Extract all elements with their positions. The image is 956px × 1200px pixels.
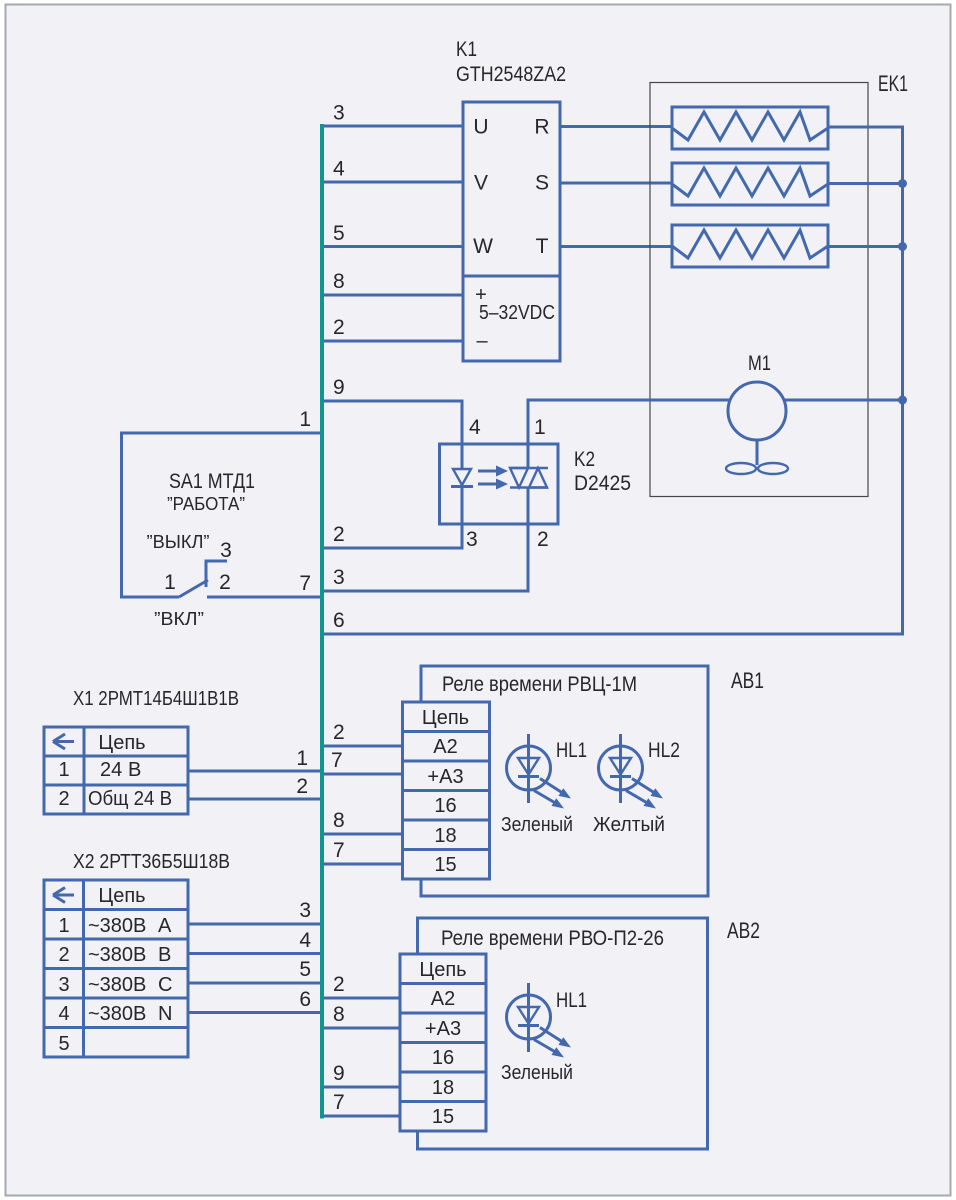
junction dot bbox=[898, 242, 907, 251]
svg-text:2: 2 bbox=[58, 944, 69, 966]
switch contact labels bbox=[164, 539, 232, 594]
wire 9 : bus to K2 pin4 bbox=[320, 401, 462, 444]
svg-text:1: 1 bbox=[58, 915, 69, 937]
K1 label bbox=[456, 38, 566, 86]
svg-text:АВ1: АВ1 bbox=[731, 668, 764, 693]
switch SA1 box outline bbox=[122, 433, 323, 597]
heater element 1 bbox=[672, 107, 828, 149]
svg-text:3: 3 bbox=[333, 566, 345, 589]
svg-text:2: 2 bbox=[333, 973, 345, 996]
svg-text:+А3: +А3 bbox=[427, 766, 463, 788]
svg-text:8: 8 bbox=[333, 1003, 345, 1026]
junction dot bbox=[898, 179, 907, 188]
wire 7 : bus to AV1.15 bbox=[320, 863, 403, 866]
AV1 terminal table bbox=[403, 702, 490, 879]
wire 3 : X2.1 to bus bbox=[188, 923, 322, 926]
svg-text:U: U bbox=[473, 116, 488, 139]
svg-text:1: 1 bbox=[534, 416, 546, 439]
svg-text:HL1: HL1 bbox=[556, 739, 587, 762]
svg-text:2: 2 bbox=[219, 571, 231, 594]
wire T : K1.T to heater EK1-3 bbox=[560, 245, 672, 248]
EK1 enclosure box bbox=[650, 83, 868, 497]
svg-text:Зеленый: Зеленый bbox=[501, 814, 573, 836]
svg-text:3: 3 bbox=[333, 102, 345, 125]
wire 2 : bus to AV1.A2 bbox=[320, 745, 403, 748]
wire 9 : bus to AV2.18 bbox=[320, 1086, 400, 1089]
wire 2 : bus to K2 pin3 bbox=[320, 524, 462, 548]
LED HL1 of AV1 bbox=[507, 734, 572, 809]
wire 6 : bus to right bus bbox=[320, 633, 904, 636]
svg-text:X2 2РТТ36Б5Ш18В: X2 2РТТ36Б5Ш18В bbox=[73, 851, 230, 873]
wire 8 : bus to AV1.18 bbox=[320, 833, 403, 836]
LED HL1 of AV2 bbox=[507, 983, 572, 1058]
wire 7 : bus to AV2.15 bbox=[320, 1115, 400, 1118]
X1 header arrow bbox=[53, 734, 74, 749]
wire heater2 to right bus bbox=[828, 182, 903, 185]
svg-text:Цепь: Цепь bbox=[422, 707, 469, 729]
svg-text:~380В: ~380В bbox=[88, 1003, 146, 1025]
svg-text:1: 1 bbox=[299, 408, 311, 431]
svg-text:9: 9 bbox=[333, 1062, 345, 1085]
svg-text:~380В: ~380В bbox=[88, 915, 146, 937]
svg-text:Желтый: Желтый bbox=[593, 814, 665, 836]
svg-text:16: 16 bbox=[432, 1047, 454, 1069]
wire 4 : bus to K1.V bbox=[320, 181, 463, 184]
svg-text:18: 18 bbox=[434, 825, 456, 847]
svg-text:5: 5 bbox=[58, 1033, 69, 1055]
svg-text:V: V bbox=[474, 172, 488, 195]
svg-text:2: 2 bbox=[58, 788, 69, 810]
wire 4 : X2.2 to bus bbox=[188, 952, 322, 955]
svg-text:X1 2РМТ14Б4Ш1В1В: X1 2РМТ14Б4Ш1В1В bbox=[73, 688, 239, 710]
K2 triac bbox=[510, 444, 548, 524]
wire heater3 to right bus bbox=[828, 245, 903, 248]
svg-text:6: 6 bbox=[333, 609, 345, 632]
svg-text:HL2: HL2 bbox=[648, 739, 680, 762]
K2 pin 4 lead and LED bbox=[451, 444, 473, 524]
svg-text:”РАБОТА”: ”РАБОТА” bbox=[167, 494, 245, 514]
wire 2 : bus to K1.minus bbox=[320, 340, 463, 343]
svg-text:2: 2 bbox=[333, 316, 345, 339]
svg-text:Цепь: Цепь bbox=[98, 885, 145, 907]
svg-text:Зеленый: Зеленый bbox=[501, 1062, 573, 1084]
svg-text:3: 3 bbox=[58, 974, 69, 996]
svg-text:Цепь: Цепь bbox=[98, 732, 145, 754]
svg-text:HL1: HL1 bbox=[556, 989, 587, 1012]
svg-text:~380В: ~380В bbox=[88, 974, 146, 996]
X1 table text bbox=[58, 732, 172, 810]
heater element 2 bbox=[672, 163, 828, 205]
svg-text:4: 4 bbox=[299, 929, 311, 952]
svg-text:8: 8 bbox=[333, 809, 345, 832]
svg-text:T: T bbox=[536, 235, 549, 258]
wire 8 : bus to AV2.+A3 bbox=[320, 1027, 400, 1030]
svg-text:А: А bbox=[158, 915, 172, 937]
svg-text:S: S bbox=[535, 172, 549, 195]
svg-text:7: 7 bbox=[333, 1091, 345, 1114]
svg-text:2: 2 bbox=[333, 721, 345, 744]
svg-text:3: 3 bbox=[220, 539, 232, 562]
svg-text:Реле времени РВЦ-1М: Реле времени РВЦ-1М bbox=[442, 673, 637, 696]
svg-text:+А3: +А3 bbox=[425, 1018, 461, 1040]
X1 connector table bbox=[44, 727, 188, 814]
motor M1 bbox=[726, 382, 788, 474]
svg-text:4: 4 bbox=[333, 158, 345, 181]
svg-text:2: 2 bbox=[296, 775, 308, 798]
svg-text:–: – bbox=[476, 330, 488, 352]
AV2 relay box bbox=[418, 918, 708, 1149]
svg-text:~380В: ~380В bbox=[88, 944, 146, 966]
svg-text:В: В bbox=[128, 759, 141, 781]
svg-text:Цепь: Цепь bbox=[419, 959, 466, 981]
wire 1 : X1.1 to AV1 +A3 bbox=[188, 770, 322, 773]
AV2 terminal table bbox=[400, 954, 486, 1131]
svg-text:9: 9 bbox=[333, 376, 345, 399]
K2 label bbox=[574, 448, 631, 495]
AV1 relay box bbox=[421, 666, 708, 896]
svg-text:Общ 24 В: Общ 24 В bbox=[88, 788, 172, 810]
wire 5 : X2.3 to bus bbox=[188, 982, 322, 985]
svg-text:7: 7 bbox=[333, 839, 345, 862]
svg-text:18: 18 bbox=[432, 1077, 454, 1099]
X2 connector table bbox=[44, 880, 188, 1057]
svg-text:1: 1 bbox=[296, 747, 308, 770]
X2 header arrow bbox=[53, 888, 74, 903]
svg-text:EK1: EK1 bbox=[878, 71, 908, 96]
svg-text:1: 1 bbox=[164, 571, 176, 594]
svg-text:8: 8 bbox=[333, 270, 345, 293]
wire S : K1.S to heater EK1-2 bbox=[560, 182, 672, 185]
relay K1 GTH2548ZA2 body bbox=[463, 102, 560, 361]
wire R : K1.R to heater EK1-1 bbox=[560, 125, 672, 128]
svg-text:7: 7 bbox=[331, 749, 343, 772]
K2 pin labels bbox=[466, 416, 549, 551]
svg-text:N: N bbox=[158, 1003, 172, 1025]
svg-text:5: 5 bbox=[299, 958, 311, 981]
wire 2 : bus to AV2.A2 bbox=[320, 997, 400, 1000]
wire 5 : bus to K1.W bbox=[320, 245, 463, 248]
svg-text:”ВЫКЛ”: ”ВЫКЛ” bbox=[147, 532, 210, 552]
svg-text:D2425: D2425 bbox=[574, 472, 631, 495]
svg-text:АВ2: АВ2 bbox=[727, 918, 760, 943]
LED HL2 of AV1 bbox=[599, 734, 664, 809]
svg-text:А2: А2 bbox=[433, 736, 457, 758]
wire K2 pin1 to motor M1 and right bus bbox=[528, 400, 903, 444]
wire 7 : switch to bus bbox=[207, 596, 322, 599]
svg-text:M1: M1 bbox=[748, 352, 771, 375]
svg-text:4: 4 bbox=[58, 1003, 69, 1025]
svg-text:5–32VDC: 5–32VDC bbox=[479, 302, 555, 324]
svg-text:”ВКЛ”: ”ВКЛ” bbox=[154, 609, 204, 629]
heater element 3 bbox=[672, 225, 828, 267]
wire 3 : bus to K1.U bbox=[320, 125, 463, 128]
svg-text:1: 1 bbox=[58, 759, 69, 781]
junction dot bbox=[898, 396, 907, 405]
switch contact 3 bbox=[206, 561, 227, 587]
main teal bus bbox=[320, 124, 324, 1119]
svg-text:2: 2 bbox=[333, 523, 345, 546]
wire 2 : X1.2 to bus bbox=[188, 798, 322, 801]
svg-text:3: 3 bbox=[299, 899, 311, 922]
svg-text:GTH2548ZA2: GTH2548ZA2 bbox=[456, 63, 566, 86]
wire 6 : X2.4 to bus bbox=[188, 1011, 322, 1014]
svg-text:R: R bbox=[534, 116, 549, 139]
X2 table text bbox=[58, 885, 172, 1055]
K2 coupling arrows bbox=[478, 466, 508, 490]
svg-text:2: 2 bbox=[537, 528, 549, 551]
svg-text:SA1 МТД1: SA1 МТД1 bbox=[169, 470, 255, 493]
svg-text:Реле времени РВО-П2-26: Реле времени РВО-П2-26 bbox=[441, 927, 664, 950]
svg-text:15: 15 bbox=[432, 1106, 454, 1128]
svg-text:W: W bbox=[473, 235, 493, 258]
svg-text:С: С bbox=[158, 974, 172, 996]
optocoupler K2 D2425 bbox=[440, 444, 559, 524]
svg-text:24: 24 bbox=[100, 759, 122, 781]
svg-text:5: 5 bbox=[333, 222, 345, 245]
switch arm bbox=[179, 580, 208, 597]
SA1 text bbox=[147, 470, 256, 629]
svg-text:15: 15 bbox=[434, 854, 456, 876]
svg-text:4: 4 bbox=[469, 416, 481, 439]
svg-text:6: 6 bbox=[299, 988, 311, 1011]
svg-text:В: В bbox=[158, 944, 171, 966]
wire heater1 to right bus and right vertical bus bbox=[828, 127, 903, 634]
wire 3 : bus to K2 pin2 bbox=[320, 524, 528, 591]
svg-text:16: 16 bbox=[434, 795, 456, 817]
svg-text:3: 3 bbox=[466, 528, 478, 551]
svg-text:K1: K1 bbox=[456, 38, 477, 61]
svg-text:А2: А2 bbox=[431, 988, 455, 1010]
svg-text:K2: K2 bbox=[574, 448, 595, 471]
svg-text:7: 7 bbox=[299, 572, 311, 595]
wire 8 : bus to K1.plus bbox=[320, 294, 463, 297]
